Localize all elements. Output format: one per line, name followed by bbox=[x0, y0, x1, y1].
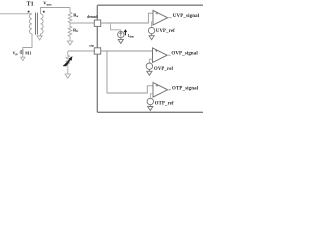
svg-text:UVP_ref: UVP_ref bbox=[156, 29, 175, 34]
resistor Rb bbox=[68, 23, 72, 37]
wire gate lead bbox=[19, 51, 21, 53]
transformer T1 primary winding bbox=[29, 14, 32, 34]
svg-text:Ra: Ra bbox=[73, 12, 78, 18]
ground under OTP_ref bbox=[148, 107, 153, 111]
op-amp U2 OVP comparator bbox=[153, 48, 168, 63]
ground under M1 bbox=[21, 57, 25, 60]
wire secondary top to Vaux rail bbox=[41, 8, 71, 14]
wire pin1 to UVP comparator bbox=[101, 13, 153, 23]
node secondary polarity dot bbox=[43, 11, 45, 13]
op-amp U1 UVP comparator bbox=[153, 10, 168, 25]
wire secondary bottom lead bbox=[39, 34, 42, 36]
ground under Rb bbox=[67, 41, 72, 45]
svg-text:OVP_ref: OVP_ref bbox=[154, 67, 174, 72]
wire U3 output bbox=[168, 89, 172, 91]
current source Idem bbox=[118, 31, 124, 37]
ground under secondary bbox=[37, 36, 42, 40]
ground under Idem bbox=[118, 39, 123, 43]
wire primary top lead bbox=[0, 13, 32, 15]
node primary polarity dot bbox=[28, 11, 30, 13]
wire divider tap to pin1 bbox=[70, 22, 94, 24]
ground under OVP_ref bbox=[147, 71, 152, 75]
svg-text:M1: M1 bbox=[25, 50, 31, 55]
pin square P2 bbox=[94, 48, 100, 54]
transformer T1 core bbox=[36, 13, 38, 35]
wire U3 minus input bbox=[150, 94, 153, 99]
svg-text:Rb: Rb bbox=[73, 27, 78, 33]
wire U2 minus input bbox=[149, 59, 152, 63]
svg-text:otp: otp bbox=[89, 43, 94, 47]
svg-text:demod: demod bbox=[87, 15, 97, 19]
plus input mark U3 bbox=[156, 84, 158, 86]
wire U2 output bbox=[167, 54, 171, 56]
wire U1 output bbox=[168, 17, 172, 19]
voltage source OVP_ref bbox=[146, 63, 152, 69]
thermistor on pin2 net bbox=[66, 51, 70, 65]
wire OVP_ref to ground bbox=[148, 69, 150, 71]
ground under UVP_ref bbox=[149, 36, 154, 40]
wire thermistor node to pin2 bbox=[68, 50, 95, 52]
svg-text:OTP_signal: OTP_signal bbox=[172, 86, 199, 91]
voltage source OTP_ref bbox=[147, 98, 153, 104]
transistor M1 gate bar bbox=[20, 50, 22, 54]
wire UVP_ref to ground bbox=[151, 34, 153, 36]
wire U1 minus input bbox=[152, 22, 153, 28]
wire source lead bbox=[22, 55, 24, 58]
transformer T1 secondary winding bbox=[41, 14, 44, 34]
thermistor arrow bbox=[63, 57, 71, 65]
voltage source UVP_ref bbox=[148, 27, 154, 33]
wire Rb to ground bbox=[69, 37, 71, 41]
wire thermistor to ground bbox=[67, 65, 69, 74]
resistor Ra bbox=[68, 8, 72, 24]
wire pin2 branch to OTP comparator bbox=[107, 51, 153, 93]
transistor M1 channel bar bbox=[22, 49, 24, 54]
plus input mark U2 bbox=[155, 50, 157, 52]
svg-text:T1: T1 bbox=[27, 1, 34, 7]
wire Idem to ground bbox=[120, 38, 122, 40]
svg-text:OVP_signal: OVP_signal bbox=[171, 52, 198, 57]
svg-text:OTP_ref: OTP_ref bbox=[155, 102, 174, 107]
wire OTP_ref to ground bbox=[149, 105, 151, 107]
op-amp U3 OTP comparator bbox=[153, 83, 168, 98]
wire Idem tap bbox=[111, 23, 121, 31]
plus input mark U1 bbox=[156, 12, 158, 14]
current direction arrow bbox=[124, 30, 126, 35]
svg-text:UVP_signal: UVP_signal bbox=[173, 14, 200, 19]
IC box outline bbox=[97, 5, 203, 112]
pin square P1 bbox=[94, 20, 100, 26]
svg-text:Vaux: Vaux bbox=[43, 1, 52, 7]
wire primary bottom lead to M1 drain bbox=[23, 34, 32, 50]
svg-text:Idem: Idem bbox=[128, 34, 135, 39]
wire pin2 to OVP comparator bbox=[101, 50, 153, 52]
ground under thermistor bbox=[65, 74, 70, 78]
